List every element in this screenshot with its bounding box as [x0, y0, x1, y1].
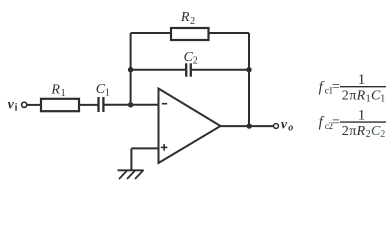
node vo terminal	[274, 124, 279, 129]
node A junction dot	[128, 102, 133, 107]
svg-text:1: 1	[366, 94, 371, 105]
label vi	[8, 98, 18, 114]
svg-text:2: 2	[342, 89, 349, 104]
op-amp U1 triangle	[159, 89, 221, 164]
resistor R1	[41, 99, 79, 111]
svg-text:2: 2	[193, 56, 198, 67]
label vo	[281, 117, 293, 133]
wire feedback right vertical	[248, 33, 250, 126]
svg-text:R: R	[180, 10, 190, 25]
svg-text:R: R	[356, 124, 366, 139]
svg-text:v: v	[281, 117, 288, 132]
wire top branch left	[131, 32, 170, 34]
svg-text:i: i	[15, 103, 18, 114]
svg-text:2: 2	[342, 124, 349, 139]
svg-text:f: f	[319, 79, 325, 95]
label C1	[96, 82, 110, 99]
wire R1 to C1	[80, 104, 98, 106]
svg-text:f: f	[319, 115, 325, 131]
svg-text:v: v	[8, 98, 15, 113]
wire C1 to node A	[105, 104, 159, 106]
wire feedback left vertical	[130, 33, 132, 105]
capacitor C1	[99, 97, 104, 112]
svg-text:=: =	[332, 115, 340, 130]
label R2	[180, 10, 195, 27]
wire top branch right	[209, 32, 250, 34]
label C2	[184, 50, 198, 67]
svg-text:o: o	[288, 123, 293, 134]
ground	[118, 170, 144, 179]
node C2-left junction dot	[128, 67, 133, 72]
wire C2 branch left	[131, 69, 186, 71]
svg-text:R: R	[356, 89, 366, 104]
wire output	[221, 125, 274, 127]
svg-text:1: 1	[61, 88, 66, 99]
svg-text:2: 2	[366, 129, 371, 140]
svg-text:2: 2	[380, 129, 385, 140]
wire plus input to ground	[130, 148, 132, 170]
node C2-right junction dot	[246, 67, 251, 72]
op-amp U1 plus input symbol	[161, 144, 168, 151]
svg-text:π: π	[349, 89, 356, 104]
svg-text:1: 1	[105, 88, 110, 99]
svg-text:R: R	[50, 82, 60, 97]
formula fc1	[319, 72, 386, 105]
node output junction dot	[247, 123, 252, 128]
label R1	[50, 82, 65, 99]
wire plus input	[131, 147, 158, 149]
wire vi to R1	[27, 104, 40, 106]
svg-text:1: 1	[358, 72, 366, 88]
svg-text:π: π	[349, 124, 356, 139]
svg-text:2: 2	[190, 16, 195, 27]
capacitor C2	[186, 63, 191, 76]
svg-text:=: =	[332, 79, 340, 94]
op-amp U1 minus input symbol	[162, 103, 167, 105]
node vi terminal	[22, 102, 27, 107]
svg-text:1: 1	[358, 107, 366, 123]
resistor R2	[171, 28, 209, 40]
svg-text:1: 1	[380, 94, 385, 105]
formula fc2	[319, 107, 386, 140]
wire C2 branch right	[192, 69, 249, 71]
